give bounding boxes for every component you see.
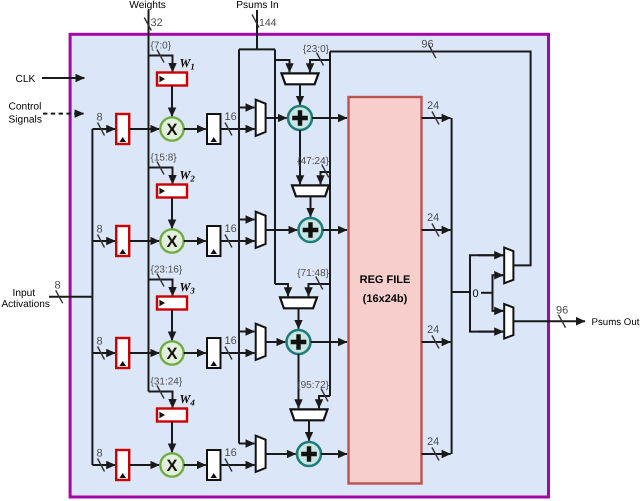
wire reg file output row 3 (24b) bbox=[422, 341, 451, 343]
multiplier X row 3 bbox=[160, 341, 183, 364]
label Psums In bbox=[236, 0, 278, 11]
bus width slash slice row 4 bbox=[321, 389, 328, 402]
svg-text:16: 16 bbox=[225, 111, 237, 123]
svg-text:8: 8 bbox=[55, 280, 61, 292]
wire pipeline register to mux row 2 (16b) bbox=[221, 240, 255, 242]
label {31:24} bbox=[151, 377, 183, 388]
weight register W4 bbox=[157, 409, 187, 422]
wire weight register W3 to multiplier bbox=[171, 310, 173, 341]
label Control Signals bbox=[9, 102, 42, 126]
label {47:24} bbox=[297, 156, 329, 167]
wire input activations entry bbox=[49, 296, 92, 298]
wire 96b feedback rail C bbox=[329, 52, 331, 397]
arrow 0 stub to out mux 1 bbox=[497, 274, 504, 276]
wire adder 4 to reg file bbox=[321, 453, 347, 455]
svg-text:{95:72}: {95:72} bbox=[297, 380, 329, 391]
wire mux to adder row 2 bbox=[266, 229, 298, 231]
arrow 0 stub to out mux 2 bbox=[497, 310, 504, 312]
svg-text:Control: Control bbox=[9, 102, 42, 113]
svg-text:144: 144 bbox=[259, 17, 277, 29]
label {23:0} bbox=[303, 44, 330, 55]
wire activation register to multiplier row 3 bbox=[130, 352, 160, 354]
svg-text:{31:24}: {31:24} bbox=[151, 377, 183, 388]
wire weight tap W1 bbox=[149, 56, 173, 73]
label 0 (constant) bbox=[472, 288, 478, 300]
wire adder 3 carry down to psum mux row 4 bbox=[298, 354, 300, 408]
wire reg file output row 2 (24b) bbox=[422, 229, 451, 231]
mux 2:1 input select row 2 bbox=[256, 212, 266, 248]
wire rail B tap to psum mux row 3 bbox=[275, 284, 288, 296]
adder + row 2 bbox=[299, 218, 323, 242]
bus width slash 8 (input activations) bbox=[56, 290, 63, 303]
mux psum source row 4 bbox=[291, 409, 328, 420]
bus width slash weight tap 1 bbox=[157, 50, 164, 63]
svg-text:{47:24}: {47:24} bbox=[297, 156, 329, 167]
label W3 bbox=[180, 280, 196, 295]
label {15:8} bbox=[151, 153, 178, 164]
svg-text:X: X bbox=[166, 457, 177, 475]
wire rail C slice tap row 1 bbox=[310, 60, 330, 72]
pipeline register row 4 bbox=[207, 450, 221, 480]
mux output feedback select bbox=[504, 248, 513, 284]
bus width slash 16 row 3 bbox=[225, 347, 232, 360]
mux psum source row 1 bbox=[282, 73, 319, 84]
svg-text:CLK: CLK bbox=[16, 74, 36, 85]
label 8 (row 1) bbox=[97, 112, 103, 124]
adder + row 3 bbox=[287, 330, 311, 354]
label {71:48} bbox=[297, 268, 329, 279]
label Weights bbox=[129, 0, 166, 11]
mux psum source row 2 bbox=[292, 185, 329, 196]
wire rail C slice tap row 4 bbox=[319, 396, 330, 408]
bus width slash 16 row 2 bbox=[225, 235, 232, 248]
wire activation branch row 1 bbox=[92, 128, 115, 130]
bus width slash 16 row 1 bbox=[225, 123, 232, 136]
svg-text:8: 8 bbox=[97, 448, 103, 460]
svg-text:16: 16 bbox=[225, 447, 237, 459]
label W4 bbox=[180, 392, 196, 407]
wire pipeline register to mux row 4 (16b) bbox=[221, 464, 255, 466]
activation register row 4 bbox=[116, 450, 129, 480]
mux psum source row 3 bbox=[280, 297, 317, 308]
wire rail A branch row 2 bbox=[239, 219, 255, 221]
wire 96b feedback loop bbox=[330, 52, 531, 266]
wire psum mux to adder row 4 bbox=[308, 420, 310, 441]
label 8 (input activations) bbox=[55, 280, 61, 292]
wire multiplier to pipeline register row 2 bbox=[184, 240, 206, 242]
arrow data stub to out mux 2 bbox=[478, 331, 503, 333]
svg-text:24: 24 bbox=[427, 324, 439, 336]
label 24 (row 4) bbox=[427, 436, 439, 448]
bus width slash 24 row 1 bbox=[432, 112, 439, 125]
mux psums out select bbox=[504, 304, 513, 339]
wire multiplier to pipeline register row 4 bbox=[184, 464, 206, 466]
wire multiplier to pipeline register row 3 bbox=[184, 352, 206, 354]
label Input Activations bbox=[2, 288, 50, 310]
wire weights bus (32b) bbox=[148, 10, 150, 392]
wire activation branch row 3 bbox=[92, 352, 115, 354]
svg-text:{23:16}: {23:16} bbox=[151, 265, 183, 276]
wire psums-in split header bbox=[239, 48, 275, 50]
svg-text:24: 24 bbox=[427, 436, 439, 448]
activation register row 2 bbox=[116, 226, 129, 256]
svg-text:Psums In: Psums In bbox=[236, 0, 278, 11]
label CLK bbox=[16, 74, 36, 85]
svg-text:24: 24 bbox=[427, 212, 439, 224]
wire activation branch row 4 bbox=[92, 464, 115, 466]
svg-text:32: 32 bbox=[151, 17, 163, 29]
svg-text:X: X bbox=[166, 345, 177, 363]
bus width slash 8 row 3 bbox=[98, 347, 105, 360]
label 32 bbox=[151, 17, 163, 29]
wire psums out bbox=[513, 320, 585, 322]
bus width slash slice row 1 bbox=[317, 53, 324, 66]
wire activation register to multiplier row 1 bbox=[130, 128, 160, 130]
bus width slash 96 feedback bbox=[429, 45, 436, 58]
pipeline register row 2 bbox=[207, 226, 221, 256]
label 8 (row 2) bbox=[97, 224, 103, 236]
wire multiplier to pipeline register row 1 bbox=[184, 128, 206, 130]
svg-text:96: 96 bbox=[556, 305, 568, 317]
svg-text:Input: Input bbox=[13, 288, 36, 299]
adder + row 1 bbox=[288, 106, 312, 130]
label {95:72} bbox=[297, 380, 329, 391]
wire rail A branch row 1 bbox=[239, 107, 255, 109]
wire weight register W2 to multiplier bbox=[171, 198, 173, 229]
multiplier X row 4 bbox=[160, 453, 183, 476]
svg-text:{23:0}: {23:0} bbox=[303, 44, 330, 55]
bus width slash 8 row 2 bbox=[98, 235, 105, 248]
wire CLK input arrow bbox=[42, 77, 84, 79]
svg-text:8: 8 bbox=[97, 224, 103, 236]
multiplier X row 2 bbox=[160, 229, 183, 252]
pipeline register row 3 bbox=[207, 338, 221, 368]
svg-text:Activations: Activations bbox=[2, 299, 50, 310]
svg-text:{15:8}: {15:8} bbox=[151, 153, 178, 164]
wire 24b collection bus bbox=[451, 118, 453, 454]
label W1 bbox=[180, 56, 195, 71]
bus width slash slice row 2 bbox=[322, 165, 329, 178]
wire weight register W1 to multiplier bbox=[171, 86, 173, 117]
bus width slash 24 row 2 bbox=[432, 224, 439, 237]
label 8 (row 3) bbox=[97, 336, 103, 348]
wire activation branch row 2 bbox=[92, 240, 115, 242]
wire constant 0 stub bbox=[481, 275, 503, 311]
wire activation register to multiplier row 2 bbox=[130, 240, 160, 242]
wire mux to adder row 3 bbox=[266, 341, 286, 343]
svg-text:(16x24b): (16x24b) bbox=[363, 293, 408, 305]
wire control signals (dashed arrow) bbox=[43, 113, 84, 115]
label 24 (row 1) bbox=[427, 100, 439, 112]
label 96 (feedback) bbox=[421, 39, 433, 51]
svg-text:8: 8 bbox=[97, 336, 103, 348]
label {23:16} bbox=[151, 265, 183, 276]
wire bus to output stage bbox=[452, 291, 470, 293]
bus width slash weight tap 4 bbox=[157, 386, 164, 399]
bus width slash 144 bbox=[252, 15, 259, 28]
mux 2:1 input select row 1 bbox=[256, 100, 266, 136]
bus width slash slice row 3 bbox=[316, 277, 323, 290]
bus width slash 96 psums out bbox=[559, 315, 566, 328]
label 16 (row 4) bbox=[225, 447, 237, 459]
wire rail C slice tap row 2 bbox=[321, 172, 331, 184]
svg-text:96: 96 bbox=[421, 39, 433, 51]
svg-text:Psums Out: Psums Out bbox=[592, 317, 640, 328]
bus width slash 32 bbox=[144, 18, 151, 31]
wire psum mux to adder row 2 bbox=[310, 196, 312, 217]
activation register row 3 bbox=[116, 338, 129, 368]
wire input activation rail bbox=[91, 129, 93, 465]
pipeline register row 1 bbox=[207, 114, 221, 144]
svg-text:8: 8 bbox=[97, 112, 103, 124]
bus width slash 24 row 4 bbox=[432, 448, 439, 461]
label 24 (row 2) bbox=[427, 212, 439, 224]
arrow data stub to out mux 1 bbox=[478, 254, 503, 256]
label 8 (row 4) bbox=[97, 448, 103, 460]
wire rail C slice tap row 3 bbox=[309, 284, 331, 296]
svg-text:Signals: Signals bbox=[9, 115, 42, 126]
svg-text:0: 0 bbox=[472, 288, 478, 300]
bus width slash weight tap 2 bbox=[157, 162, 164, 175]
bus width slash 24 row 3 bbox=[432, 336, 439, 349]
wire adder 1 carry down to psum mux row 2 bbox=[299, 130, 301, 184]
label Psums Out bbox=[592, 317, 640, 328]
wire psum rail B bbox=[274, 49, 276, 284]
wire adder 2 to reg file bbox=[323, 229, 348, 231]
label 144 bbox=[259, 17, 277, 29]
mux 2:1 input select row 4 bbox=[256, 436, 266, 472]
wire mux to adder row 1 bbox=[266, 117, 287, 119]
wire weight tap W3 bbox=[149, 280, 173, 297]
weight register W3 bbox=[157, 297, 187, 310]
multiplier X row 1 bbox=[160, 117, 183, 140]
svg-text:Weights: Weights bbox=[129, 0, 166, 11]
wire pipeline register to mux row 3 (16b) bbox=[221, 352, 255, 354]
svg-text:16: 16 bbox=[225, 223, 237, 235]
svg-text:X: X bbox=[166, 121, 177, 139]
mux 2:1 input select row 3 bbox=[256, 324, 266, 360]
wire mux to adder row 4 bbox=[266, 453, 296, 455]
reg file (16x24b) bbox=[349, 97, 422, 484]
adder + row 4 bbox=[297, 442, 321, 466]
wire reg file output row 1 (24b) bbox=[422, 117, 451, 119]
wire weight register W4 to multiplier bbox=[171, 422, 173, 453]
label 16 (row 2) bbox=[225, 223, 237, 235]
wire reg file output row 4 (24b) bbox=[422, 453, 451, 455]
activation register row 1 bbox=[116, 114, 129, 144]
bus width slash 8 row 4 bbox=[98, 459, 105, 472]
label 16 (row 1) bbox=[225, 111, 237, 123]
label 16 (row 3) bbox=[225, 335, 237, 347]
wire psum mux to adder row 3 bbox=[298, 308, 300, 329]
wire rail A branch row 3 bbox=[239, 331, 255, 333]
wire pipeline register to mux row 1 (16b) bbox=[221, 128, 255, 130]
wire rail A branch row 4 bbox=[239, 443, 255, 445]
bus width slash 8 row 1 bbox=[98, 123, 105, 136]
wire psum rail A (mux select inputs) bbox=[238, 49, 240, 443]
label {7:0} bbox=[151, 41, 172, 52]
wire psum mux to adder row 1 bbox=[299, 84, 301, 105]
wire weight tap W2 bbox=[149, 168, 173, 185]
wire adder 3 to reg file bbox=[311, 341, 348, 343]
wire adder 1 to reg file bbox=[312, 117, 347, 119]
label 96 (psums out) bbox=[556, 305, 568, 317]
svg-text:{71:48}: {71:48} bbox=[297, 268, 329, 279]
svg-text:REG FILE: REG FILE bbox=[360, 274, 411, 286]
weight register W2 bbox=[157, 185, 187, 198]
label 24 (row 3) bbox=[427, 324, 439, 336]
bus width slash 16 row 4 bbox=[225, 459, 232, 472]
wire output stage data stub bbox=[470, 255, 503, 331]
bus width slash weight tap 3 bbox=[157, 274, 164, 287]
svg-text:{7:0}: {7:0} bbox=[151, 41, 172, 52]
svg-text:24: 24 bbox=[427, 100, 439, 112]
wire psums-in bus (144b) bbox=[256, 10, 258, 49]
PE boundary box bbox=[70, 34, 548, 497]
wire rail B tap to psum mux row 1 bbox=[275, 60, 290, 72]
wire weight tap W4 bbox=[149, 392, 173, 409]
label W2 bbox=[180, 168, 196, 183]
svg-text:X: X bbox=[166, 233, 177, 251]
weight register W1 bbox=[157, 73, 187, 86]
svg-text:16: 16 bbox=[225, 335, 237, 347]
wire activation register to multiplier row 4 bbox=[130, 464, 160, 466]
